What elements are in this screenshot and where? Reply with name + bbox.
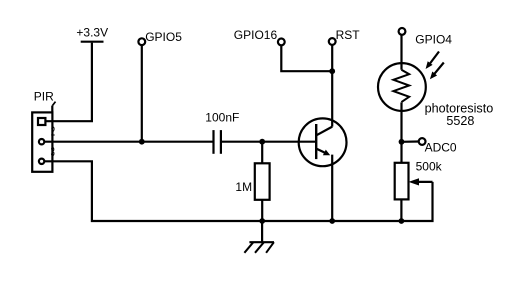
photoresistor R2 body circle bbox=[378, 63, 426, 111]
wire junction down to resistor R1 bbox=[261, 142, 263, 164]
wire photoresistor down to ADC junction bbox=[400, 102, 402, 162]
photoresistor R2 zigzag element bbox=[393, 70, 409, 102]
wire RST down to transistor collector bbox=[331, 45, 333, 127]
terminal GPIO4 circle bbox=[399, 28, 406, 35]
transistor Q1 collector diagonal bbox=[317, 127, 333, 136]
svg-text:3: 3 bbox=[51, 146, 55, 159]
transistor Q1 body circle bbox=[299, 118, 347, 166]
svg-text:+3.3V: +3.3V bbox=[76, 26, 108, 40]
connector J1 pin 3 (round pad) bbox=[39, 159, 44, 164]
junction GPIO5/main bbox=[139, 139, 145, 145]
svg-text:2: 2 bbox=[51, 126, 55, 139]
svg-text:GPIO5: GPIO5 bbox=[145, 30, 182, 44]
connector J1 body bbox=[32, 106, 52, 172]
svg-text:GPIO4: GPIO4 bbox=[415, 32, 452, 46]
wire pin3 down to ground rail bbox=[44, 161, 262, 221]
potentiometer R3 wiper arrow bbox=[409, 178, 433, 185]
wire pin2 to capacitor bbox=[44, 141, 212, 143]
wire junction to ADC0 terminal bbox=[402, 140, 419, 143]
wire capacitor to base junction bbox=[222, 141, 262, 143]
terminal GPIO5 circle bbox=[138, 38, 145, 45]
svg-text:ADC0: ADC0 bbox=[425, 141, 457, 155]
ground symbol bbox=[244, 221, 274, 253]
svg-text:PIR: PIR bbox=[34, 90, 54, 104]
wire R1 bottom to ground rail bbox=[261, 200, 263, 221]
transistor Q1 emitter arrowhead bbox=[323, 150, 330, 156]
resistor R1 1M body bbox=[255, 163, 270, 200]
wire GPIO16 to RST net bbox=[281, 45, 332, 71]
wire emitter down to ground rail bbox=[331, 155, 333, 221]
svg-text:1M: 1M bbox=[235, 180, 252, 194]
connector J1 pin 2 (round pad) bbox=[39, 139, 44, 144]
junction GPIO16/RST bbox=[329, 68, 335, 74]
wire pin1 to +3.3V stem bbox=[45, 43, 92, 122]
svg-text:100nF: 100nF bbox=[205, 111, 239, 125]
svg-text:GPIO16: GPIO16 bbox=[234, 28, 278, 42]
terminal GPIO16 circle bbox=[278, 39, 285, 46]
terminal ADC0 circle bbox=[419, 138, 426, 145]
wire junction to transistor base bbox=[262, 141, 316, 143]
ground rail wire right bbox=[332, 220, 401, 222]
transistor Q1 base bar bbox=[315, 124, 317, 159]
photoresistor light arrow 2 bbox=[430, 63, 444, 80]
wire GPIO4 down to photoresistor bbox=[400, 35, 402, 70]
capacitor C1 100nF bbox=[214, 130, 221, 154]
junction photoresistor/ADC0/pot bbox=[399, 139, 405, 145]
junction emitter/ground rail bbox=[329, 218, 335, 224]
wire GPIO5 down to main net bbox=[141, 45, 143, 142]
svg-text:500k: 500k bbox=[416, 159, 443, 173]
junction cap/R1/base bbox=[259, 139, 265, 145]
connector J1 pin 1 (square pad) bbox=[38, 118, 45, 125]
transistor Q1 emitter diagonal bbox=[317, 149, 326, 154]
photoresistor light arrow 1 bbox=[426, 52, 439, 70]
wire pot bottom to ground rail bbox=[400, 199, 402, 221]
power +3.3V symbol bar bbox=[81, 41, 104, 43]
junction pot/ground rail bbox=[399, 218, 405, 224]
svg-text:RST: RST bbox=[336, 28, 361, 42]
potentiometer R3 body bbox=[395, 163, 409, 200]
terminal RST circle bbox=[329, 38, 336, 45]
pin number 1 bbox=[52, 102, 55, 106]
junction R1/ground rail bbox=[259, 218, 265, 224]
svg-text:5528: 5528 bbox=[446, 114, 474, 128]
ground rail wire bbox=[262, 220, 332, 222]
wire wiper down to ground rail bbox=[401, 182, 432, 221]
